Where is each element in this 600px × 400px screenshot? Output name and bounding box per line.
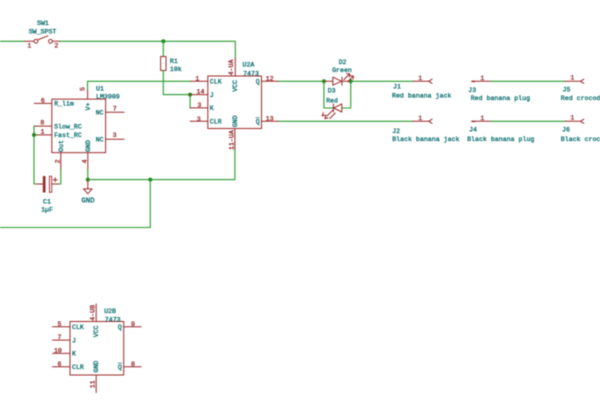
- svg-text:3: 3: [113, 132, 117, 139]
- svg-text:Slow_RC: Slow_RC: [54, 123, 82, 130]
- svg-text:Red: Red: [326, 97, 338, 104]
- wire Q to LED junction: [279, 80, 324, 82]
- wire junction down to K pin: [189, 95, 191, 108]
- svg-text:7: 7: [113, 105, 117, 112]
- svg-text:U1: U1: [96, 86, 104, 93]
- svg-text:1µF: 1µF: [41, 207, 53, 214]
- pin 5 CLK: [53, 326, 71, 328]
- svg-text:SW1: SW1: [37, 20, 49, 27]
- pin 11 GND: [95, 375, 97, 393]
- svg-text:11: 11: [90, 380, 97, 388]
- pin 8 Slow_RC: [34, 125, 52, 127]
- connector J5 Red crocodile clip: [561, 75, 600, 102]
- svg-text:J1: J1: [393, 84, 401, 91]
- svg-text:10k: 10k: [170, 66, 182, 73]
- svg-text:J4: J4: [469, 127, 477, 134]
- resistor R1 10k: [161, 57, 182, 74]
- wire gnd rail: [88, 149, 235, 180]
- junction pin1 node: [32, 133, 36, 137]
- svg-text:Black crocodile clip: Black crocodile clip: [561, 136, 600, 143]
- svg-text:5: 5: [58, 321, 62, 328]
- ground: [81, 180, 95, 206]
- svg-text:NC: NC: [96, 109, 104, 116]
- connector J4 Black banana plug: [467, 115, 534, 143]
- svg-text:J: J: [210, 92, 214, 99]
- svg-text:10: 10: [54, 348, 62, 355]
- svg-text:D3: D3: [328, 88, 336, 95]
- svg-text:CLK: CLK: [72, 324, 84, 331]
- pin 8 Qbar: [124, 366, 142, 368]
- svg-text:1: 1: [27, 42, 31, 49]
- svg-text:1: 1: [480, 75, 484, 82]
- svg-text:K: K: [210, 105, 214, 112]
- svg-text:GND: GND: [93, 361, 100, 373]
- svg-text:K: K: [72, 351, 76, 358]
- svg-text:3: 3: [197, 102, 201, 109]
- wire top-left to SW1: [0, 40, 25, 42]
- pin 7 J: [53, 339, 71, 341]
- wire J3 to J5: [491, 80, 566, 82]
- svg-text:D2: D2: [339, 59, 347, 66]
- svg-text:4-UA: 4-UA: [228, 60, 235, 76]
- junction LED left: [322, 79, 326, 83]
- svg-text:GND: GND: [232, 115, 239, 127]
- pin 4 VCC: [234, 59, 236, 77]
- svg-text:6: 6: [41, 97, 45, 104]
- svg-text:CLR: CLR: [210, 119, 222, 126]
- svg-text:12: 12: [266, 76, 274, 83]
- connector J2 Black banana jack: [392, 115, 459, 143]
- svg-text:7473: 7473: [243, 71, 259, 78]
- svg-text:Red banana jack: Red banana jack: [392, 92, 451, 99]
- svg-text:1: 1: [570, 75, 574, 82]
- svg-text:Fast_RC: Fast_RC: [54, 132, 82, 139]
- junction J pin node: [188, 93, 192, 97]
- svg-text:2: 2: [55, 159, 62, 163]
- wire LED branch right-up: [342, 81, 351, 108]
- pin 5 V+: [87, 90, 89, 99]
- wire Qbar to J2: [279, 120, 413, 122]
- svg-text:J6: J6: [562, 127, 570, 134]
- svg-text:Green: Green: [332, 67, 352, 74]
- svg-text:SW_SPST: SW_SPST: [29, 29, 57, 36]
- pin 4 VCC: [95, 304, 97, 322]
- svg-text:Q: Q: [118, 364, 122, 371]
- connector J6 Black crocodile clip: [561, 115, 600, 143]
- svg-text:U2B: U2B: [104, 308, 116, 315]
- svg-text:6: 6: [58, 361, 62, 368]
- svg-text:13: 13: [266, 116, 274, 123]
- svg-text:Q: Q: [256, 79, 260, 86]
- flip-flop U2B 7473: [53, 304, 142, 393]
- junction gnd rail / bottom branch: [148, 178, 152, 182]
- svg-text:CLK: CLK: [210, 79, 222, 86]
- svg-text:1: 1: [480, 115, 484, 122]
- pin 7 NC: [106, 111, 125, 113]
- svg-text:Out: Out: [58, 140, 65, 152]
- svg-text:J3: J3: [468, 87, 476, 94]
- svg-text:LM3909: LM3909: [96, 93, 120, 100]
- switch SW1: [25, 20, 61, 49]
- svg-text:J2: J2: [392, 128, 400, 135]
- LED D2 Green: [324, 59, 354, 85]
- svg-text:14: 14: [197, 88, 205, 95]
- pin 6 R_lim: [34, 102, 52, 104]
- LED D3 Red: [322, 88, 342, 119]
- svg-text:R1: R1: [170, 58, 178, 65]
- junction gnd symbol node: [86, 178, 90, 182]
- svg-text:Q: Q: [118, 324, 122, 331]
- svg-text:1: 1: [195, 75, 199, 82]
- pin 12 Q: [262, 80, 279, 82]
- svg-text:11-UA: 11-UA: [228, 130, 235, 150]
- svg-text:NC: NC: [96, 137, 104, 144]
- svg-text:7473: 7473: [105, 316, 121, 323]
- wire J4 to J6: [491, 120, 566, 122]
- svg-text:Black banana jack: Black banana jack: [392, 136, 459, 143]
- pin 1 Fast_RC: [34, 134, 52, 136]
- svg-text:3: 3: [197, 116, 201, 123]
- pin 6 CLR: [53, 366, 71, 368]
- svg-text:9: 9: [131, 321, 135, 328]
- svg-text:2: 2: [54, 42, 58, 49]
- svg-text:1: 1: [418, 75, 422, 82]
- svg-text:V+: V+: [85, 103, 92, 111]
- wire bottom branch: [0, 180, 150, 228]
- svg-text:U2A: U2A: [243, 61, 255, 68]
- svg-text:8: 8: [131, 361, 135, 368]
- pin 2 CLR: [190, 120, 208, 122]
- svg-text:VCC: VCC: [232, 80, 239, 92]
- pin 9 Q: [124, 326, 142, 328]
- wire pins 8+1 to C1: [34, 126, 38, 184]
- svg-text:Q: Q: [256, 119, 260, 126]
- svg-text:R_lim: R_lim: [54, 101, 74, 108]
- connector J1 Red banana jack: [392, 75, 451, 99]
- svg-text:7: 7: [58, 334, 62, 341]
- svg-text:Red crocodile clip: Red crocodile clip: [561, 95, 600, 102]
- pin 3 K: [190, 107, 208, 109]
- pin 11 GND: [234, 129, 236, 150]
- pin 1 CLK: [191, 80, 208, 82]
- wire LED to J1: [351, 80, 413, 82]
- wire GND pin to gnd rail: [87, 170, 89, 180]
- wire LED branch down-left: [324, 81, 333, 108]
- pin 13 Qbar: [262, 120, 279, 122]
- flip-flop U2A 7473: [190, 59, 279, 151]
- wire Out pin to C1 plus plate: [58, 170, 61, 185]
- wire V+ to CLK: [88, 81, 191, 90]
- svg-text:J: J: [72, 337, 76, 344]
- svg-text:C1: C1: [43, 199, 51, 206]
- pin 3 NC: [106, 138, 125, 140]
- wire junction to R1: [162, 41, 164, 56]
- svg-text:5: 5: [79, 87, 86, 91]
- junction LED right: [349, 79, 353, 83]
- svg-text:Red banana plug: Red banana plug: [471, 95, 530, 102]
- svg-text:1: 1: [570, 115, 574, 122]
- pin 4 GND: [87, 153, 89, 170]
- op-amp U1 LM3909: [34, 86, 124, 170]
- svg-text:GND: GND: [81, 197, 95, 205]
- junction top wire / R1: [161, 39, 165, 43]
- svg-text:1: 1: [418, 115, 422, 122]
- wire SW1 to U2A VCC corner: [61, 41, 236, 58]
- pin 10 K: [53, 352, 71, 354]
- svg-text:J5: J5: [563, 87, 571, 94]
- wire R1 bottom to J-pin junction: [163, 71, 190, 95]
- svg-text:1: 1: [41, 129, 45, 136]
- pin 2 Out: [60, 153, 62, 170]
- svg-text:Black banana plug: Black banana plug: [467, 136, 534, 143]
- svg-text:4: 4: [81, 159, 88, 163]
- capacitor C1 1uF: [37, 176, 59, 214]
- svg-text:GND: GND: [85, 140, 92, 152]
- pin 14 J: [190, 94, 208, 96]
- svg-text:CLR: CLR: [72, 364, 84, 371]
- svg-text:VCC: VCC: [93, 325, 100, 337]
- svg-text:8: 8: [40, 120, 44, 127]
- connector J3 Red banana plug: [468, 75, 530, 102]
- svg-text:4-UB: 4-UB: [89, 305, 96, 321]
